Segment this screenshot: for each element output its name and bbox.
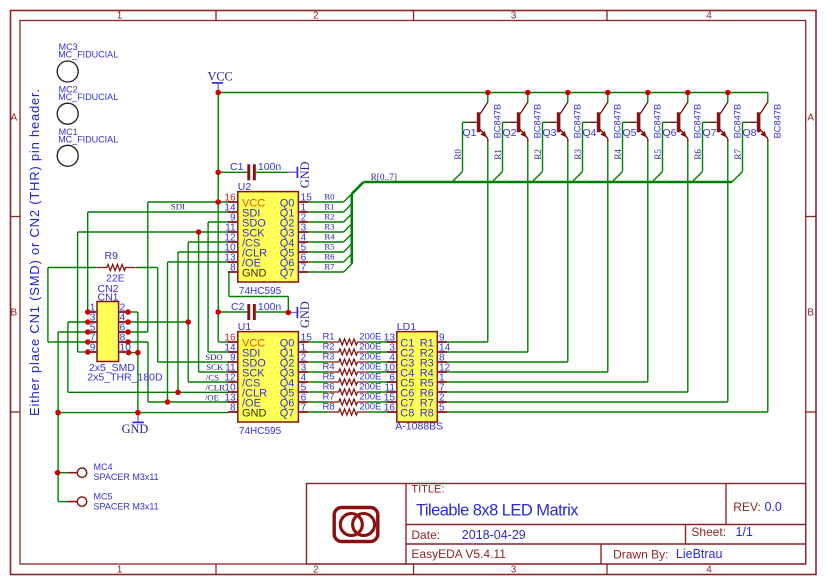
svg-text:BC847B: BC847B <box>772 104 782 139</box>
svg-text:BC847B: BC847B <box>612 104 622 139</box>
svg-text:SDI: SDI <box>171 201 185 211</box>
svg-text:74HC595: 74HC595 <box>239 286 282 297</box>
svg-text:U2: U2 <box>238 181 252 193</box>
svg-text:100n: 100n <box>258 161 282 173</box>
svg-text:BC847B: BC847B <box>692 104 702 139</box>
svg-text:R5: R5 <box>324 242 335 252</box>
svg-text:A-1088BS: A-1088BS <box>395 421 443 433</box>
svg-text:Q5: Q5 <box>623 127 637 139</box>
svg-text:100n: 100n <box>258 301 282 313</box>
svg-text:2: 2 <box>313 11 319 22</box>
svg-text:9: 9 <box>90 343 96 354</box>
svg-text:R2: R2 <box>533 149 543 160</box>
svg-text:C2: C2 <box>231 301 245 313</box>
svg-text:R9: R9 <box>105 250 119 262</box>
svg-text:R7: R7 <box>324 262 335 272</box>
svg-text:A: A <box>10 112 17 123</box>
svg-text:A: A <box>807 112 814 123</box>
svg-text:Q6: Q6 <box>663 127 677 139</box>
svg-text:10: 10 <box>120 343 132 354</box>
svg-text:R6: R6 <box>693 149 703 160</box>
svg-text:BC847B: BC847B <box>492 104 502 139</box>
svg-text:R5: R5 <box>653 149 663 160</box>
svg-text:R[0..7]: R[0..7] <box>371 173 397 183</box>
svg-text:R4: R4 <box>613 149 623 160</box>
svg-text:74HC595: 74HC595 <box>239 426 282 437</box>
svg-text:/CS: /CS <box>206 372 219 382</box>
svg-text:CN1: CN1 <box>98 292 119 304</box>
svg-text:4: 4 <box>706 11 712 22</box>
svg-text:B: B <box>807 308 814 319</box>
svg-text:Q4: Q4 <box>583 127 597 139</box>
svg-text:GND: GND <box>298 301 312 328</box>
svg-text:R2: R2 <box>324 212 334 222</box>
svg-text:MC4: MC4 <box>94 462 113 472</box>
svg-text:R4: R4 <box>324 232 335 242</box>
svg-text:3: 3 <box>511 11 517 22</box>
svg-text:R0: R0 <box>453 149 463 160</box>
svg-text:Q3: Q3 <box>543 127 557 139</box>
svg-text:R1: R1 <box>324 202 334 212</box>
svg-text:R8: R8 <box>420 408 434 420</box>
svg-text:MC_FIDUCIAL: MC_FIDUCIAL <box>58 135 118 145</box>
svg-text:3: 3 <box>511 565 517 576</box>
svg-text:Q1: Q1 <box>463 127 477 139</box>
svg-text:2x5_THR_180D: 2x5_THR_180D <box>87 372 163 384</box>
svg-text:B: B <box>10 308 17 319</box>
svg-text:Q7: Q7 <box>703 127 717 139</box>
svg-text:C1: C1 <box>230 161 244 173</box>
svg-text:R3: R3 <box>324 222 335 232</box>
svg-text:22E: 22E <box>106 273 125 285</box>
svg-text:Drawn By:: Drawn By: <box>613 548 668 562</box>
svg-text:1: 1 <box>117 565 123 576</box>
svg-text:SCK: SCK <box>206 362 224 372</box>
svg-text:R7: R7 <box>733 149 743 160</box>
svg-text:16: 16 <box>384 403 396 414</box>
svg-text:C8: C8 <box>400 408 414 420</box>
svg-text:/OE: /OE <box>205 393 219 403</box>
svg-text:Date:: Date: <box>411 528 440 542</box>
svg-text:LD1: LD1 <box>397 321 416 333</box>
svg-text:EasyEDA V5.4.11: EasyEDA V5.4.11 <box>411 547 506 561</box>
svg-text:GND: GND <box>242 268 267 280</box>
svg-text:8: 8 <box>230 263 236 274</box>
svg-text:R3: R3 <box>573 149 583 160</box>
svg-text:BC847B: BC847B <box>732 104 742 139</box>
svg-text:Sheet:: Sheet: <box>691 525 726 539</box>
svg-text:VCC: VCC <box>207 69 232 83</box>
svg-text:SDO: SDO <box>205 352 223 362</box>
svg-text:LieBtrau: LieBtrau <box>676 547 723 561</box>
svg-text:SPACER M3x11: SPACER M3x11 <box>94 472 159 482</box>
svg-text:REV:: REV: <box>733 500 761 514</box>
svg-text:7: 7 <box>301 263 307 274</box>
svg-text:4: 4 <box>706 565 712 576</box>
svg-text:MC_FIDUCIAL: MC_FIDUCIAL <box>58 49 118 59</box>
svg-text:Q7: Q7 <box>280 268 295 280</box>
svg-text:TITLE:: TITLE: <box>411 484 444 496</box>
svg-text:2: 2 <box>313 565 319 576</box>
svg-text:GND: GND <box>122 422 149 436</box>
svg-text:R1: R1 <box>493 149 503 160</box>
svg-text:2018-04-29: 2018-04-29 <box>462 528 526 542</box>
svg-text:R8: R8 <box>322 402 334 413</box>
svg-text:SPACER M3x11: SPACER M3x11 <box>94 502 159 512</box>
svg-text:1: 1 <box>117 11 123 22</box>
svg-text:7: 7 <box>301 403 307 414</box>
svg-text:Either place CN1 (SMD) or CN2: Either place CN1 (SMD) or CN2 (THR) pin … <box>27 88 42 416</box>
svg-text:MC5: MC5 <box>94 491 113 501</box>
svg-text:/CLR: /CLR <box>205 383 225 393</box>
svg-text:Tileable 8x8 LED Matrix: Tileable 8x8 LED Matrix <box>416 502 579 520</box>
svg-text:BC847B: BC847B <box>652 104 662 139</box>
svg-text:U1: U1 <box>238 321 252 333</box>
svg-text:200E: 200E <box>359 402 381 413</box>
svg-text:0.0: 0.0 <box>765 500 782 514</box>
svg-text:R0: R0 <box>324 192 335 202</box>
svg-text:GND: GND <box>242 408 267 420</box>
svg-text:Q8: Q8 <box>743 127 757 139</box>
svg-text:BC847B: BC847B <box>532 104 542 139</box>
svg-text:Q7: Q7 <box>280 408 295 420</box>
svg-text:5: 5 <box>439 403 445 414</box>
svg-text:R6: R6 <box>324 252 335 262</box>
svg-text:GND: GND <box>298 161 312 188</box>
svg-text:MC_FIDUCIAL: MC_FIDUCIAL <box>58 92 118 102</box>
svg-text:Q2: Q2 <box>503 127 517 139</box>
svg-text:BC847B: BC847B <box>572 104 582 139</box>
svg-text:1/1: 1/1 <box>736 525 753 539</box>
svg-text:8: 8 <box>230 403 236 414</box>
